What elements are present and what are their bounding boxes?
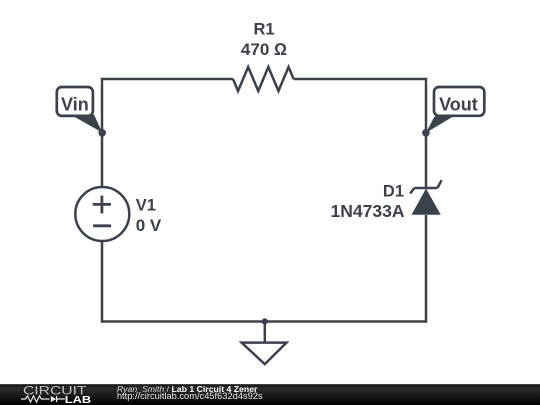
wire top-left segment — [102, 79, 233, 187]
junction Vin node dot — [98, 129, 106, 137]
svg-text:1N4733A: 1N4733A — [331, 201, 405, 221]
junction ground node dot — [262, 318, 268, 324]
svg-text:R1: R1 — [253, 21, 274, 39]
resistor R1 — [233, 67, 294, 91]
zener diode D1 — [410, 180, 441, 215]
wire bottom-left segment — [102, 241, 265, 322]
svg-text:D1: D1 — [383, 183, 404, 201]
voltage source V1 — [75, 187, 129, 241]
svg-text:Vout: Vout — [439, 95, 478, 115]
wire top-right segment — [294, 79, 426, 188]
junction Vout node dot — [422, 129, 430, 137]
svg-text:Vin: Vin — [61, 95, 89, 115]
svg-text:0 V: 0 V — [136, 216, 162, 235]
node Vin flag — [57, 87, 103, 133]
svg-text:V1: V1 — [136, 197, 156, 215]
ground — [242, 321, 287, 364]
wire bottom-right segment — [265, 215, 426, 322]
svg-text:LAB: LAB — [65, 395, 92, 405]
footer bar — [0, 384, 540, 405]
node Vout flag — [426, 87, 484, 133]
svg-text:http://circuitlab.com/c45f632d: http://circuitlab.com/c45f632d4s92s — [117, 391, 263, 401]
svg-text:470 Ω: 470 Ω — [241, 40, 287, 59]
logo resistor-diode squiggle — [21, 396, 65, 402]
